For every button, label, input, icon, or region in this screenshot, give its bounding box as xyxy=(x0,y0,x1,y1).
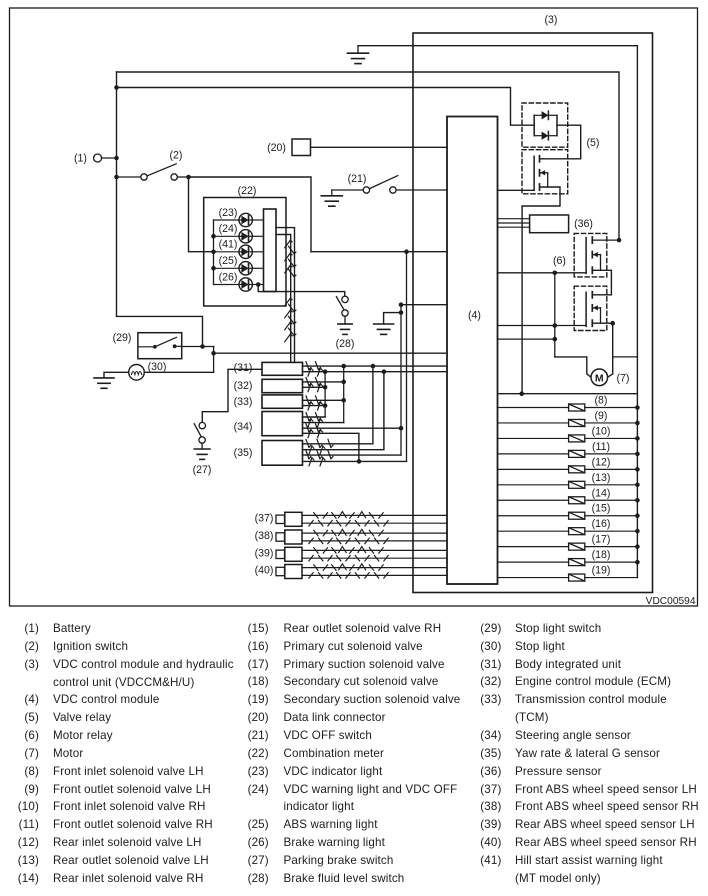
junction drain-busA xyxy=(617,238,622,243)
valve relay diode right bar xyxy=(556,115,558,135)
label (24) xyxy=(219,223,238,235)
valve relay MOSFET xyxy=(534,156,548,190)
ground top center xyxy=(348,46,369,64)
junction after ignition xyxy=(186,175,191,180)
label (1) xyxy=(74,153,87,165)
diode D2 xyxy=(534,132,557,140)
ground (28) xyxy=(338,324,352,334)
wire valve relay gate xyxy=(498,189,535,191)
wire lamp right xyxy=(144,371,213,373)
label (9) xyxy=(595,410,608,422)
ground center xyxy=(374,313,401,335)
motor relay MOSFET B xyxy=(586,292,600,327)
motor relay MOSFET A xyxy=(586,237,600,273)
svg-text:(40): (40) xyxy=(255,565,274,577)
label (39) xyxy=(255,548,274,560)
wire (34) w4 xyxy=(303,433,359,461)
svg-text:(41): (41) xyxy=(219,239,238,251)
label (15) xyxy=(592,503,611,515)
TCM box (33) xyxy=(262,395,303,408)
vertical 31B branch x383.9 xyxy=(303,372,384,450)
junction bus (8) xyxy=(635,405,640,410)
svg-text:(8): (8) xyxy=(595,395,608,407)
junction 31B-325 xyxy=(323,369,328,374)
label (28) xyxy=(336,338,355,350)
wire meter out2 xyxy=(276,235,291,363)
outer border frame xyxy=(10,8,698,606)
label (2) xyxy=(170,150,183,162)
junction 32B xyxy=(323,385,328,390)
indicator LED (24) xyxy=(239,230,264,243)
solenoid valve (10) xyxy=(498,435,638,442)
junction 31A-343 xyxy=(341,364,346,369)
drawing number xyxy=(646,596,696,607)
wire ignition branch down to LED bus xyxy=(189,177,214,252)
svg-text:(6): (6) xyxy=(553,255,566,267)
data link connector (20) xyxy=(292,139,311,156)
svg-text:(10): (10) xyxy=(592,425,611,437)
solenoid valve (11) xyxy=(498,450,638,457)
wire battery line B xyxy=(117,88,535,126)
junction 34w3 xyxy=(399,426,404,431)
wire motor right xyxy=(607,323,612,377)
svg-text:(26): (26) xyxy=(219,271,238,283)
solenoid valve (8) xyxy=(498,404,638,411)
valve relay dashed box upper xyxy=(522,103,568,147)
wire mosfetB gate xyxy=(498,325,587,327)
wire (31)A xyxy=(303,365,448,367)
svg-text:(24): (24) xyxy=(219,223,238,235)
meter resistor block xyxy=(264,209,277,292)
junction LED bus 24 xyxy=(211,234,216,239)
label (12) xyxy=(592,456,611,468)
svg-text:(39): (39) xyxy=(255,548,274,560)
twist marks (39) xyxy=(309,547,388,561)
wire motor to bus xyxy=(613,356,638,358)
VDC control module box (4) xyxy=(447,117,498,585)
junction ignition-bus xyxy=(114,175,119,180)
CAN vertical x325 xyxy=(324,372,326,417)
ignition switch (2) xyxy=(117,164,189,180)
label (25) xyxy=(219,255,238,267)
label (20) xyxy=(267,142,286,154)
wire (35) w4 xyxy=(303,460,407,462)
svg-text:(17): (17) xyxy=(592,534,611,546)
svg-text:(20): (20) xyxy=(267,142,286,154)
hatch marks sensor bus wires xyxy=(306,362,333,466)
solenoid valve (12) xyxy=(498,466,638,473)
junction row26 xyxy=(256,282,261,287)
motor relay dashed box lower xyxy=(574,286,607,330)
wire (34) w1 xyxy=(303,416,326,418)
svg-text:(15): (15) xyxy=(592,503,611,515)
wire mosfetA drain xyxy=(593,239,619,241)
label (34) xyxy=(234,421,253,433)
ground for (21) xyxy=(321,190,342,206)
label (19) xyxy=(592,565,611,577)
label (18) xyxy=(592,549,611,561)
wire (35) w3 xyxy=(303,454,402,456)
twist marks (40) xyxy=(309,564,388,578)
svg-text:(9): (9) xyxy=(595,410,608,422)
wire valve relay source to solenoid bus xyxy=(522,187,560,394)
twist marks (38) xyxy=(309,529,388,543)
battery (1) xyxy=(94,154,117,162)
svg-text:(36): (36) xyxy=(574,218,593,230)
wire (34) w2 xyxy=(303,422,344,424)
junction bus (18) xyxy=(635,560,640,565)
wheel speed sensor (40) xyxy=(276,565,447,579)
label (30) xyxy=(148,361,167,373)
wire motor left feed xyxy=(555,357,591,377)
label (8) xyxy=(595,395,608,407)
label (32) xyxy=(234,380,253,392)
label (31) xyxy=(234,362,253,374)
label (22) xyxy=(238,185,257,197)
indicator LED (26) xyxy=(239,278,264,291)
vertical pwr net x406.5 xyxy=(406,252,408,462)
label (17) xyxy=(592,534,611,546)
junction gateB-554 xyxy=(553,323,558,328)
svg-text:(30): (30) xyxy=(148,361,167,373)
wire gnd net to module xyxy=(401,304,447,306)
svg-text:(31): (31) xyxy=(234,362,253,374)
CAN vertical x343 xyxy=(343,366,345,423)
solenoid valve (13) xyxy=(498,481,638,488)
LED anode bus xyxy=(213,220,215,285)
junction 554-339 xyxy=(553,337,558,342)
label (13) xyxy=(592,472,611,484)
svg-text:(29): (29) xyxy=(113,332,132,344)
junction line B on bus xyxy=(114,85,119,90)
label (7) xyxy=(617,373,630,385)
wire mosfetA source to B drain xyxy=(593,270,611,295)
wire (32)B xyxy=(303,386,326,388)
pressure sensor box (36) xyxy=(530,215,569,233)
label (6) xyxy=(553,255,566,267)
stop light (30) lamp xyxy=(129,365,145,381)
wheel speed sensor (37) xyxy=(276,512,447,526)
solenoid bus top line xyxy=(498,393,638,395)
junction bus (12) xyxy=(635,467,640,472)
junction 33A xyxy=(341,398,346,403)
label (21) xyxy=(348,173,367,185)
svg-text:(32): (32) xyxy=(234,380,253,392)
body integrated unit box (31) xyxy=(262,362,303,375)
svg-text:(35): (35) xyxy=(234,447,253,459)
ground (27) xyxy=(194,449,210,459)
junction 32A xyxy=(341,380,346,385)
junction LED bus feed xyxy=(211,250,216,255)
label (23) xyxy=(219,207,238,219)
ECM box (32) xyxy=(262,379,303,392)
steering angle sensor box (34) xyxy=(262,412,303,436)
svg-text:(34): (34) xyxy=(234,421,253,433)
wire (31)B xyxy=(303,371,448,373)
wire x554 vertical xyxy=(554,273,556,357)
svg-text:(33): (33) xyxy=(234,396,253,408)
label (36) xyxy=(574,218,593,230)
junction gateA-554 xyxy=(553,271,558,276)
svg-text:(13): (13) xyxy=(592,472,611,484)
junction bus (16) xyxy=(635,529,640,534)
solenoid valve (15) xyxy=(498,512,638,519)
svg-text:(27): (27) xyxy=(193,464,212,476)
svg-text:M: M xyxy=(595,373,604,385)
junction bus (17) xyxy=(635,544,640,549)
switch inside (29) xyxy=(138,337,182,348)
hatch marks meter wires lower xyxy=(285,298,296,342)
wire (33)A xyxy=(303,399,344,401)
svg-text:(37): (37) xyxy=(255,513,274,525)
junction bus (9) xyxy=(635,421,640,426)
svg-text:(3): (3) xyxy=(545,14,558,26)
label (29) xyxy=(113,332,132,344)
wire (31) to parking brake switch xyxy=(202,369,262,422)
svg-text:(11): (11) xyxy=(592,441,610,453)
svg-text:(28): (28) xyxy=(336,338,355,350)
label (14) xyxy=(592,487,611,499)
svg-text:(5): (5) xyxy=(587,137,600,149)
svg-text:(22): (22) xyxy=(238,185,257,197)
label (27) xyxy=(193,464,212,476)
wire battery bus top line A xyxy=(117,72,620,240)
svg-text:(21): (21) xyxy=(348,173,367,185)
label (16) xyxy=(592,518,611,530)
svg-text:(4): (4) xyxy=(468,310,481,322)
wire mosfetB source xyxy=(593,322,613,324)
wire L1 to module xyxy=(214,352,447,354)
junction bus-29 xyxy=(200,344,205,349)
label (5) xyxy=(587,137,600,149)
wire meter out1 xyxy=(276,228,295,363)
wheel speed sensor (39) xyxy=(276,547,447,561)
label (40) xyxy=(255,565,274,577)
wire y339 to module xyxy=(498,338,555,340)
label (37) xyxy=(255,513,274,525)
junction 31B-383 xyxy=(382,369,387,374)
junction 33B xyxy=(323,403,328,408)
stop light switch box (29) xyxy=(138,333,182,359)
svg-text:(2): (2) xyxy=(170,150,183,162)
wheel speed sensor (38) xyxy=(276,530,447,544)
svg-text:(1): (1) xyxy=(74,153,87,165)
indicator LED (25) xyxy=(239,262,264,275)
label (35) xyxy=(234,447,253,459)
yaw rate sensor box (35) xyxy=(262,441,303,466)
junction bus (15) xyxy=(635,513,640,518)
solenoid valve (19) xyxy=(498,574,638,581)
wire (29) out xyxy=(182,347,214,373)
solenoid valve (9) xyxy=(498,419,638,426)
vertical gnd net x401 xyxy=(400,305,402,455)
wires LED rows xyxy=(214,220,240,285)
junction srcB xyxy=(610,321,615,326)
wire mosfetA gate xyxy=(498,272,587,274)
wire (20) to module xyxy=(311,146,448,148)
junction gnd net top xyxy=(399,302,404,307)
VDC OFF switch (21) xyxy=(332,176,447,194)
label (10) xyxy=(592,425,611,437)
wire ignition to meter feed xyxy=(189,177,312,252)
svg-text:(12): (12) xyxy=(592,456,611,468)
label (26) xyxy=(219,271,238,283)
junction L1 start xyxy=(211,351,216,356)
wires (36) to module xyxy=(498,219,530,228)
motor (7) xyxy=(591,369,608,386)
twist marks (37) xyxy=(309,512,388,526)
svg-text:(7): (7) xyxy=(617,373,630,385)
solenoid valve (16) xyxy=(498,528,638,535)
junction pwr net top xyxy=(404,249,409,254)
combination meter box (22) xyxy=(204,198,286,307)
parking brake switch (27) xyxy=(194,422,205,449)
valve relay dashed box lower xyxy=(522,150,568,194)
wire battery bus vertical xyxy=(117,72,203,347)
svg-text:(19): (19) xyxy=(592,565,611,577)
svg-text:(23): (23) xyxy=(219,207,238,219)
junction 31A-372 xyxy=(371,364,376,369)
ground (30) xyxy=(94,378,114,388)
wire (33)B xyxy=(303,405,326,407)
label (11) xyxy=(592,441,610,453)
indicator LED (41) xyxy=(239,245,264,258)
brake fluid level switch (28) xyxy=(336,296,348,324)
wire (32)A xyxy=(303,381,344,383)
junction 35w4-358 xyxy=(357,459,362,464)
wire meter out3 to brake fluid switch xyxy=(258,285,345,297)
svg-text:(18): (18) xyxy=(592,549,611,561)
solenoid valve (17) xyxy=(498,543,638,550)
VDCCM&H/U box (3) xyxy=(413,33,653,593)
svg-text:(25): (25) xyxy=(219,255,238,267)
svg-text:(38): (38) xyxy=(255,530,274,542)
junction solenoid bus feed xyxy=(519,391,524,396)
label (38) xyxy=(255,530,274,542)
junction LED bus 25 xyxy=(211,266,216,271)
junction bus (13) xyxy=(635,483,640,488)
svg-text:(16): (16) xyxy=(592,518,611,530)
diode D1 xyxy=(534,111,557,119)
solenoid valve (18) xyxy=(498,559,638,566)
junction gnd join xyxy=(399,310,404,315)
label (33) xyxy=(234,396,253,408)
valve relay diode left bar xyxy=(533,115,535,135)
motor relay dashed box upper xyxy=(574,233,607,277)
wire ignition feed to module xyxy=(311,251,447,253)
label (41) xyxy=(219,239,238,251)
junction bus (10) xyxy=(635,436,640,441)
wire (34) w3 xyxy=(303,427,402,429)
svg-text:VDC00594: VDC00594 xyxy=(646,596,696,607)
hatch marks meter wires upper xyxy=(285,240,296,277)
wire ground line to right bus xyxy=(358,46,637,578)
vertical 31A branch x372.9 xyxy=(303,366,373,444)
junction bus (11) xyxy=(635,452,640,457)
wire lamp left to ground xyxy=(104,372,129,378)
svg-text:(14): (14) xyxy=(592,487,611,499)
indicator LED (23) xyxy=(239,213,264,226)
junction battery-bus xyxy=(114,156,119,161)
label (4) xyxy=(468,310,481,322)
wire diode out to mosfet drain xyxy=(540,125,580,159)
solenoid valve (14) xyxy=(498,497,638,504)
junction bus (14) xyxy=(635,498,640,503)
label (3) xyxy=(545,14,558,26)
